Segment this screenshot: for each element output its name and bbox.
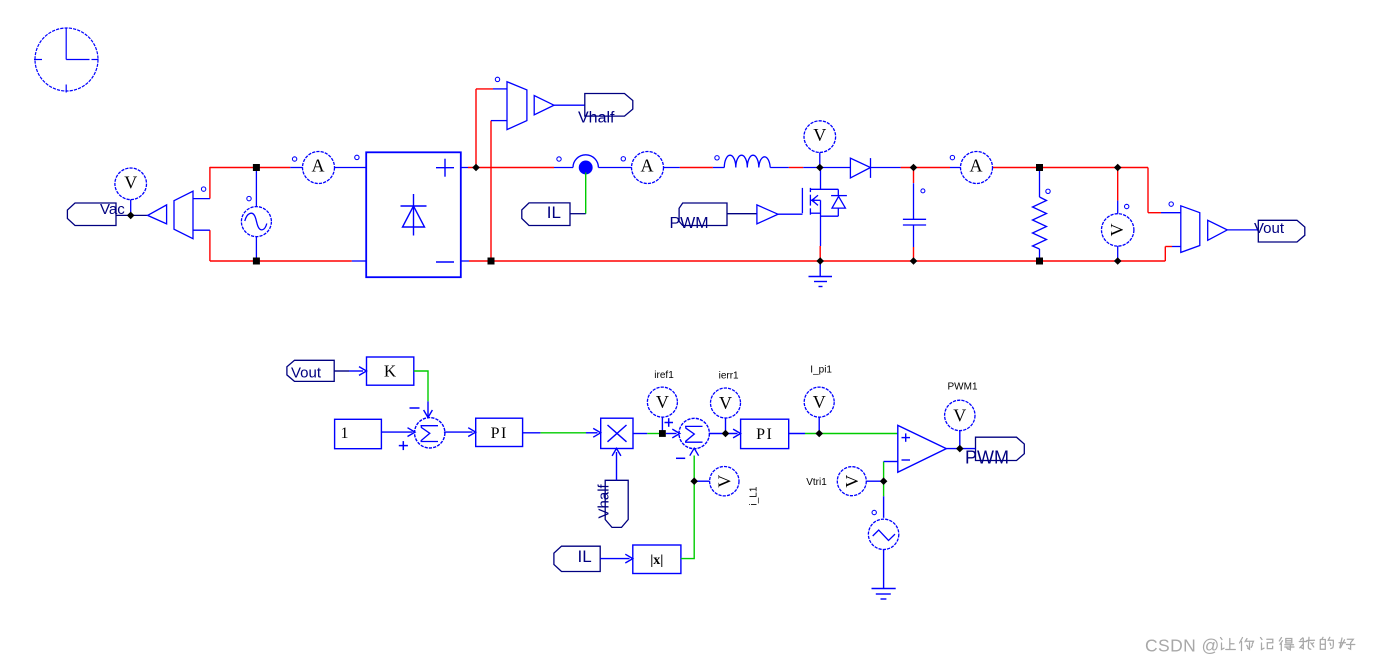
svg-text:iref1: iref1 <box>654 370 674 381</box>
svg-text:A: A <box>312 156 325 176</box>
svg-text:I_pi1: I_pi1 <box>810 364 832 375</box>
svg-text:Vout: Vout <box>1254 220 1285 237</box>
svg-text:1: 1 <box>341 425 349 442</box>
svg-text:IL: IL <box>547 203 561 222</box>
svg-text:IL: IL <box>578 547 592 566</box>
svg-text:i_L1: i_L1 <box>749 486 760 505</box>
svg-text:PWM: PWM <box>965 448 1009 468</box>
svg-text:V: V <box>813 125 826 145</box>
svg-text:V: V <box>1107 223 1127 236</box>
svg-text:PI: PI <box>756 426 773 443</box>
svg-text:V: V <box>656 392 669 412</box>
svg-text:PWM1: PWM1 <box>948 382 978 393</box>
svg-text:Vhalf: Vhalf <box>578 110 615 127</box>
svg-text:Vhalf: Vhalf <box>596 483 613 518</box>
svg-text:PWM: PWM <box>670 215 709 232</box>
svg-text:V: V <box>813 392 826 412</box>
svg-text:A: A <box>641 156 654 176</box>
svg-text:PI: PI <box>491 425 508 442</box>
svg-text:V: V <box>719 393 732 413</box>
svg-text:V: V <box>953 405 966 425</box>
svg-text:ierr1: ierr1 <box>719 371 739 382</box>
svg-text:Vtri1: Vtri1 <box>806 477 827 488</box>
svg-text:Vac: Vac <box>100 201 125 218</box>
svg-text:K: K <box>384 362 397 381</box>
svg-text:A: A <box>970 156 983 176</box>
svg-text:Vout: Vout <box>291 364 322 381</box>
svg-text:V: V <box>842 475 862 488</box>
svg-text:|x|: |x| <box>650 553 663 568</box>
svg-text:V: V <box>124 172 137 192</box>
svg-text:V: V <box>714 475 734 488</box>
svg-text:CSDN @: CSDN @ <box>1145 636 1220 656</box>
